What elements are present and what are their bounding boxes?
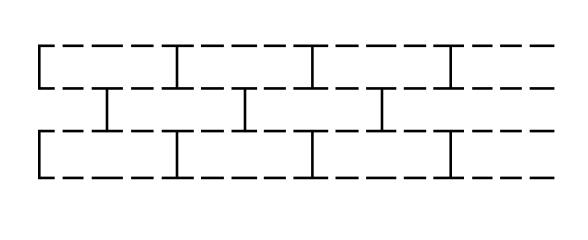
- bottom dashed line L4: [39, 177, 554, 180]
- left bracket, top row (joins L1-L2): [38, 45, 41, 90]
- vertical bar row1 x=177.0 (joins L1-L2): [176, 46, 179, 89]
- vertical bar row1 x=450.7 (joins L1-L2): [449, 46, 452, 89]
- dashed line L3: [39, 130, 554, 133]
- vertical bar row2 x=245.0 (joins L2-L3): [244, 88, 247, 131]
- vertical bar row3 x=177.0 (joins L3-L4): [176, 131, 179, 178]
- vertical bar row3 x=450.7 (joins L3-L4): [449, 131, 452, 178]
- left bracket, bottom row (joins L3-L4): [38, 130, 41, 179]
- vertical bar row1 x=312.4 (joins L1-L2): [311, 46, 314, 89]
- dashed line L2: [39, 87, 554, 90]
- vertical bar row2 x=382.0 (joins L2-L3): [381, 88, 384, 131]
- top dashed line L1: [39, 44, 554, 47]
- vertical bar row2 x=107.0 (joins L2-L3): [106, 88, 109, 131]
- vertical bar row3 x=312.4 (joins L3-L4): [311, 131, 314, 178]
